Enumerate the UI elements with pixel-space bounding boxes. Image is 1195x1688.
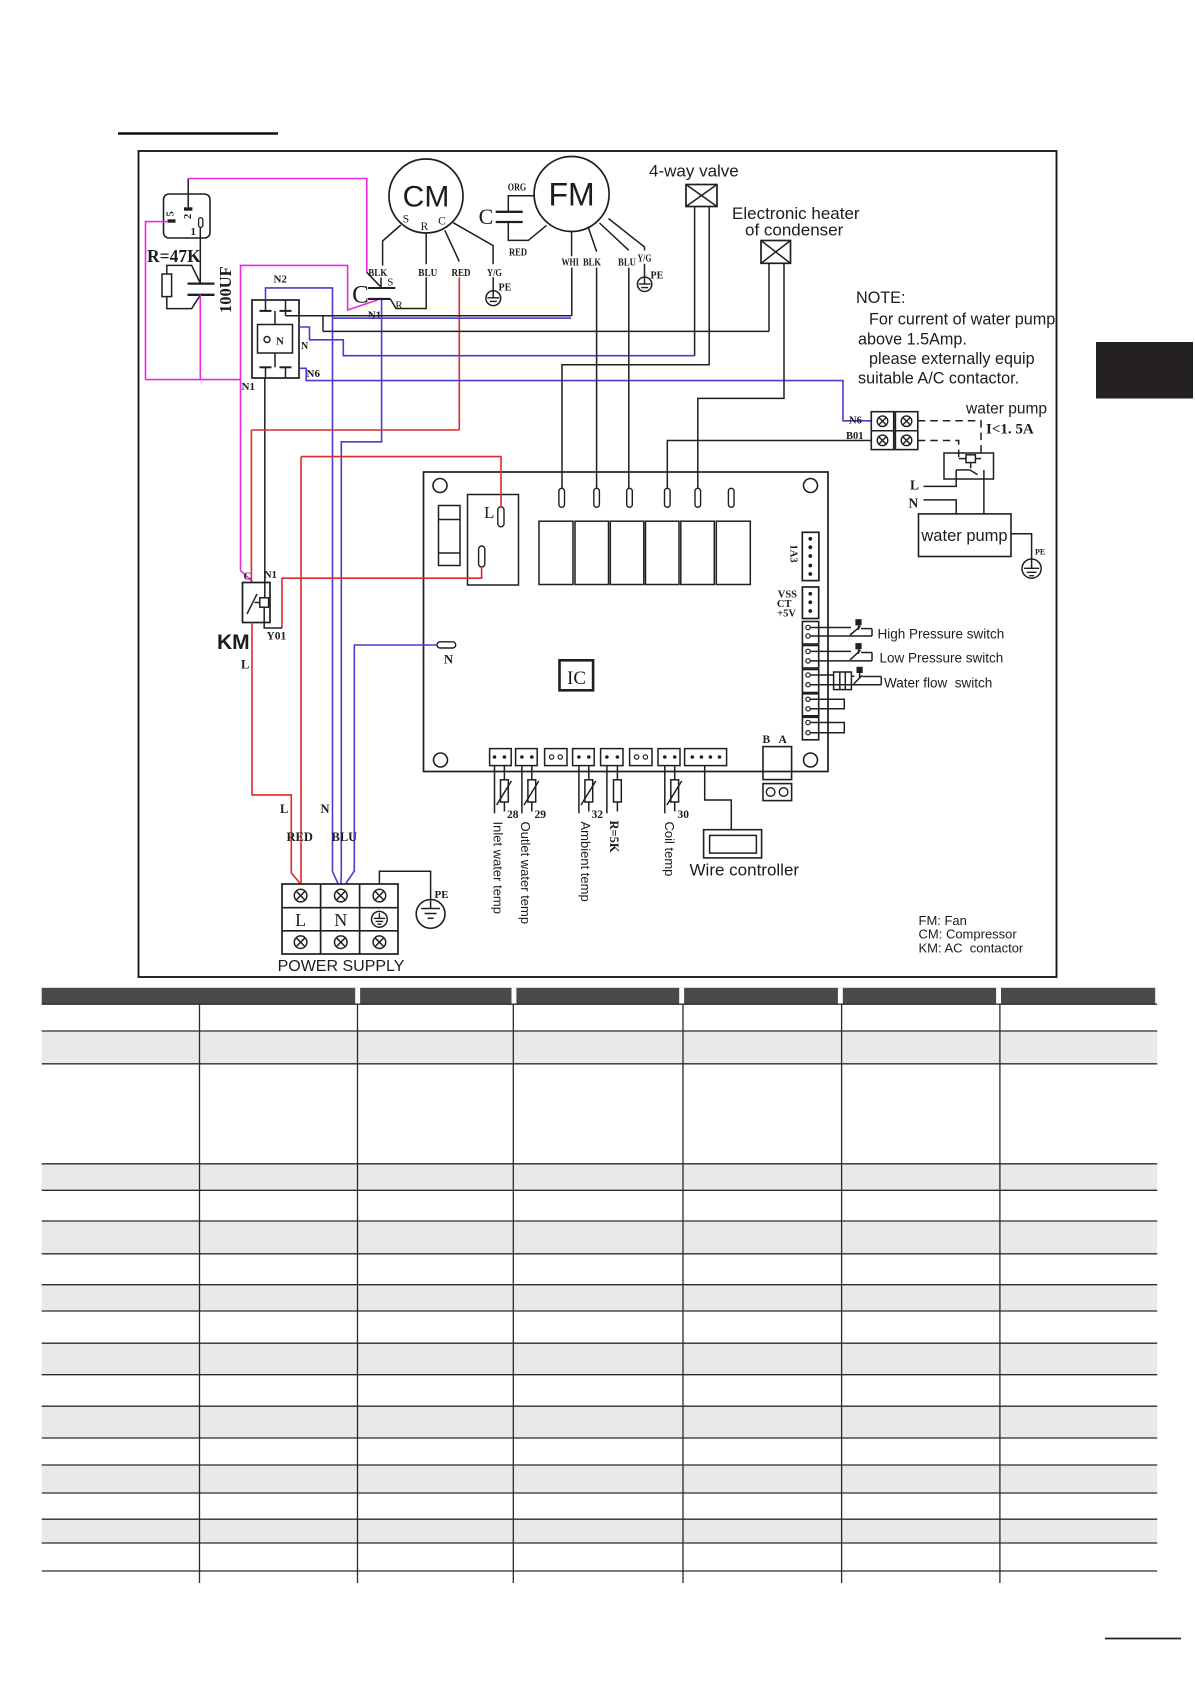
wire blue PCB N to power supply [346,645,437,884]
wire red drop to KM [250,430,252,583]
svg-text:Coil temp: Coil temp [662,822,677,877]
svg-text:Ambient temp: Ambient temp [578,822,593,902]
svg-text:BLU: BLU [418,267,437,279]
wire magenta pin5 to lower junction [146,222,169,380]
svg-text:BLU: BLU [618,257,636,269]
KM contactor [243,583,271,623]
wire CM earth lead [453,223,493,265]
svg-text:I<1. 5A: I<1. 5A [986,422,1034,438]
wire heater right pin to PCB [698,263,784,488]
svg-text:S: S [403,214,409,226]
wire red CM branch to KM coil [251,429,459,431]
labels B A [763,734,788,746]
low pressure switch [810,643,872,661]
wire switch R to CM BLU lead [390,277,426,308]
wire pump to earth [1011,534,1032,559]
power supply screws bottom row [294,936,385,949]
wire fan capacitor bottom to FM [508,222,546,240]
svg-text:R=5K: R=5K [607,821,621,853]
wire magenta pin2 to compressor switch blade [188,179,367,273]
dashed link lower [918,441,959,459]
connector VSS CT +5V [777,587,819,620]
dashed link upper [918,421,981,458]
connector jumper 2 [802,717,844,740]
svg-text:NOTE:: NOTE: [856,289,905,307]
svg-text:IC: IC [567,668,586,689]
svg-text:C: C [438,216,446,228]
wire controller box [704,830,762,858]
wire red live trunk to power supply [300,457,302,884]
svg-text:CM: Compressor: CM: Compressor [919,927,1018,942]
table: row lines [42,1004,1158,1571]
relay pin 5 [166,211,177,222]
wire CM S black lead [383,225,401,266]
bottom right short rule [1105,1638,1181,1640]
svg-text:Y/G: Y/G [638,254,652,265]
svg-text:FM: FM [548,177,594,213]
NOTE text block [856,289,1055,388]
svg-text:29: 29 [535,809,547,821]
svg-text:L: L [910,478,919,493]
svg-text:L: L [241,658,249,672]
svg-text:Inlet water temp: Inlet water temp [490,822,505,915]
wire red fuse block return [282,567,482,628]
svg-text:WHI: WHI [561,257,579,269]
svg-text:BLU: BLU [332,830,358,844]
svg-text:C: C [479,204,494,229]
water pump terminal block [871,412,918,450]
svg-text:A: A [779,734,788,746]
thermistor sensor 29 outlet water temp [518,766,546,925]
wire red CM C down [458,277,460,430]
wire resistor bottom node [167,295,201,308]
svg-text:N6: N6 [307,368,321,380]
svg-text:PE: PE [1035,548,1045,557]
overload protector block body [252,300,299,378]
diagram frame [139,151,1057,977]
svg-text:N: N [321,802,330,816]
svg-text:RED: RED [509,247,527,259]
wire relay pin2 stub [187,179,189,208]
thermistor sensor 28 inlet water temp [490,766,518,914]
svg-text:please externally equip: please externally equip [869,350,1035,368]
wire resistor top node [167,265,201,283]
relay pin 1 [191,218,203,238]
wire black block to heater and WHI [286,311,770,332]
fuse F1 [439,506,461,566]
wire contactor to pump [983,470,985,514]
svg-text:N6: N6 [849,416,862,427]
wire blue branch to FM WHI corner [333,317,572,319]
svg-text:N1: N1 [264,570,277,581]
connector jumper 1 [802,694,844,716]
svg-text:KM: AC contactor: KM: AC contactor [919,941,1024,956]
table: column lines [200,1004,1000,1583]
svg-text:+5V: +5V [777,609,796,620]
table: zebra rows [42,1032,1158,1543]
compressor switch blade [367,272,381,287]
wire blue funnel into N terminal [340,871,342,883]
resistor R body [162,274,172,297]
svg-text:Low Pressure switch: Low Pressure switch [880,651,1004,666]
connector low pressure [802,646,818,669]
svg-text:suitable A/C contactor.: suitable A/C contactor. [858,370,1019,388]
wire to wire controller [705,766,732,830]
svg-text:N1: N1 [242,381,255,393]
power supply screws top row [294,889,385,902]
heater coil symbol [761,241,791,264]
4-way valve coil symbol [686,185,717,207]
wire blue N stub to 4-way valve [299,327,695,356]
thermistor sensor 30 coil temp [662,766,689,877]
svg-text:B: B [763,734,771,746]
svg-text:PE: PE [435,889,449,901]
high pressure switch [810,619,872,636]
wire FM WHI drop to neutral branch [571,268,573,316]
compressor switch S contact bar [368,287,395,289]
bottom connector R=5K [601,749,623,766]
wire red branch to fuse block [301,457,501,507]
fan motor FM [534,157,609,232]
svg-text:30: 30 [678,809,690,821]
PCB mounting holes [433,479,818,768]
wire FM WHI lead [571,232,573,257]
wire 4-way valve left pin [694,207,696,356]
wire blue N2 riser and long neutral drop [266,288,333,872]
capacitor 100UF plates [188,284,215,295]
live input block L [468,495,519,586]
svg-text:water pump: water pump [920,527,1007,545]
svg-text:R: R [395,300,403,312]
connector water flow [802,670,818,693]
wire heater left pin [768,263,770,331]
svg-text:S: S [387,276,393,288]
svg-text:N: N [276,336,284,348]
svg-text:POWER SUPPLY: POWER SUPPLY [278,958,405,975]
legend [919,913,1024,956]
svg-text:N: N [301,341,309,352]
bottom connector coil temp [658,749,680,766]
power supply earth cell symbol [372,911,388,927]
connector 1A3 [788,532,819,580]
wire FM BLK lead [588,227,597,252]
svg-text:100UF: 100UF [216,266,235,313]
svg-text:RED: RED [452,267,471,279]
wire FM to fan capacitor top [508,196,534,212]
wire FM BLK drop to PCB [596,268,598,489]
PCB top connector pins [559,488,734,507]
wire blue N6 line to water pump terminal [299,368,871,421]
svg-text:PE: PE [499,283,512,294]
wire black N1 block to KM [264,378,266,598]
svg-text:Y/G: Y/G [487,267,502,279]
fan capacitor C plates [496,212,523,222]
wire magenta riser to switch C [241,265,379,570]
terminal screws [877,416,912,446]
ground PE symbol pump [1022,559,1041,578]
wire magenta capacitor to junction [199,295,201,380]
wire FM BLU lead [600,223,629,250]
svg-text:Water flow switch: Water flow switch [884,676,992,691]
wire PE to earth electrode [379,871,430,899]
bottom connector spare 1 [545,749,567,766]
wire FM BLU drop to PCB [628,268,630,489]
ground PE symbol FM [637,264,651,292]
wire Y01 black [264,607,282,628]
svg-text:L: L [484,503,494,522]
svg-text:B01: B01 [846,431,864,442]
svg-text:2: 2 [183,214,194,219]
label Electronic heater of condenser [732,204,860,240]
svg-text:R: R [421,221,429,233]
title underline [118,132,278,135]
svg-text:KM: KM [217,631,250,654]
wire L stub [924,479,957,486]
svg-text:32: 32 [592,809,604,821]
svg-text:4-way valve: 4-way valve [649,162,739,181]
table: dark header bar [42,988,1156,1004]
bottom connector wire controller port [685,749,727,766]
wire blue switch C to neutral jog [341,300,381,872]
svg-text:N: N [909,496,919,511]
svg-text:1A3: 1A3 [788,545,799,563]
wire CM R lead [425,233,427,264]
power supply terminal block [282,884,398,954]
connector high pressure [802,622,818,645]
svg-text:N: N [444,653,453,667]
resistor R=5K sensor [607,766,621,853]
wire FM earth lead [609,219,645,251]
compressor motor CM [389,159,463,233]
thermistor sensor 32 ambient temp [578,766,603,902]
bottom connector spare 2 [630,749,652,766]
svg-text:water pump: water pump [965,401,1047,418]
svg-text:N: N [334,910,347,930]
wire B01 black line from PCB to terminal [667,441,871,489]
svg-text:PE: PE [651,271,664,282]
wire CM S below label to S contact [380,278,382,288]
water flow switch [810,667,881,690]
wire blue funnel left into N terminal [333,871,339,883]
svg-text:C: C [244,572,252,583]
earth electrode symbol [416,900,445,929]
wire magenta into KM coil C [241,571,253,582]
svg-text:BLK: BLK [583,257,601,269]
svg-text:5: 5 [166,211,177,216]
power supply labels L N [295,910,347,930]
svg-text:High Pressure switch: High Pressure switch [878,627,1005,642]
svg-text:Y01: Y01 [267,631,287,643]
svg-text:of condenser: of condenser [745,221,844,240]
svg-text:C: C [352,282,369,309]
wire relay pin1 to capacitor [199,227,201,283]
connector B A [763,747,792,801]
svg-text:Outlet water temp: Outlet water temp [518,822,533,925]
svg-text:L: L [295,910,306,930]
bottom connector ambient temp [573,749,595,766]
relay bank on PCB [539,521,750,584]
bottom connector outlet water temp [516,749,538,766]
neutral pin N on PCB [437,642,456,667]
svg-text:28: 28 [507,809,519,821]
svg-text:CM: CM [403,181,450,214]
compressor switch C contact bar [368,298,390,300]
wire N stub [924,500,957,514]
svg-text:N2: N2 [274,274,288,286]
pump contactor box [944,453,994,479]
wire CM C red lead [445,230,460,261]
svg-text:RED: RED [287,830,313,844]
ground PE symbol CM [486,277,501,305]
svg-text:ORG: ORG [508,182,527,194]
svg-text:For current of water pump: For current of water pump [869,311,1055,329]
side tab marker [1096,342,1193,399]
svg-text:R=47K: R=47K [147,246,201,266]
wire magenta junction horizontal [146,379,241,381]
IC chip [560,660,594,690]
svg-text:1: 1 [191,226,197,238]
bottom connector inlet water temp [490,749,512,766]
relay pin 2 [183,207,194,219]
wire red KM to power supply L [252,623,300,884]
water pump box [919,514,1012,557]
svg-text:L: L [280,802,288,816]
svg-text:above 1.5Amp.: above 1.5Amp. [858,331,967,349]
start relay K1 body [164,194,211,238]
wire 4-way valve right pin to PCB [562,207,709,489]
svg-text:Wire controller: Wire controller [690,861,800,880]
main control board PCB [424,472,829,772]
